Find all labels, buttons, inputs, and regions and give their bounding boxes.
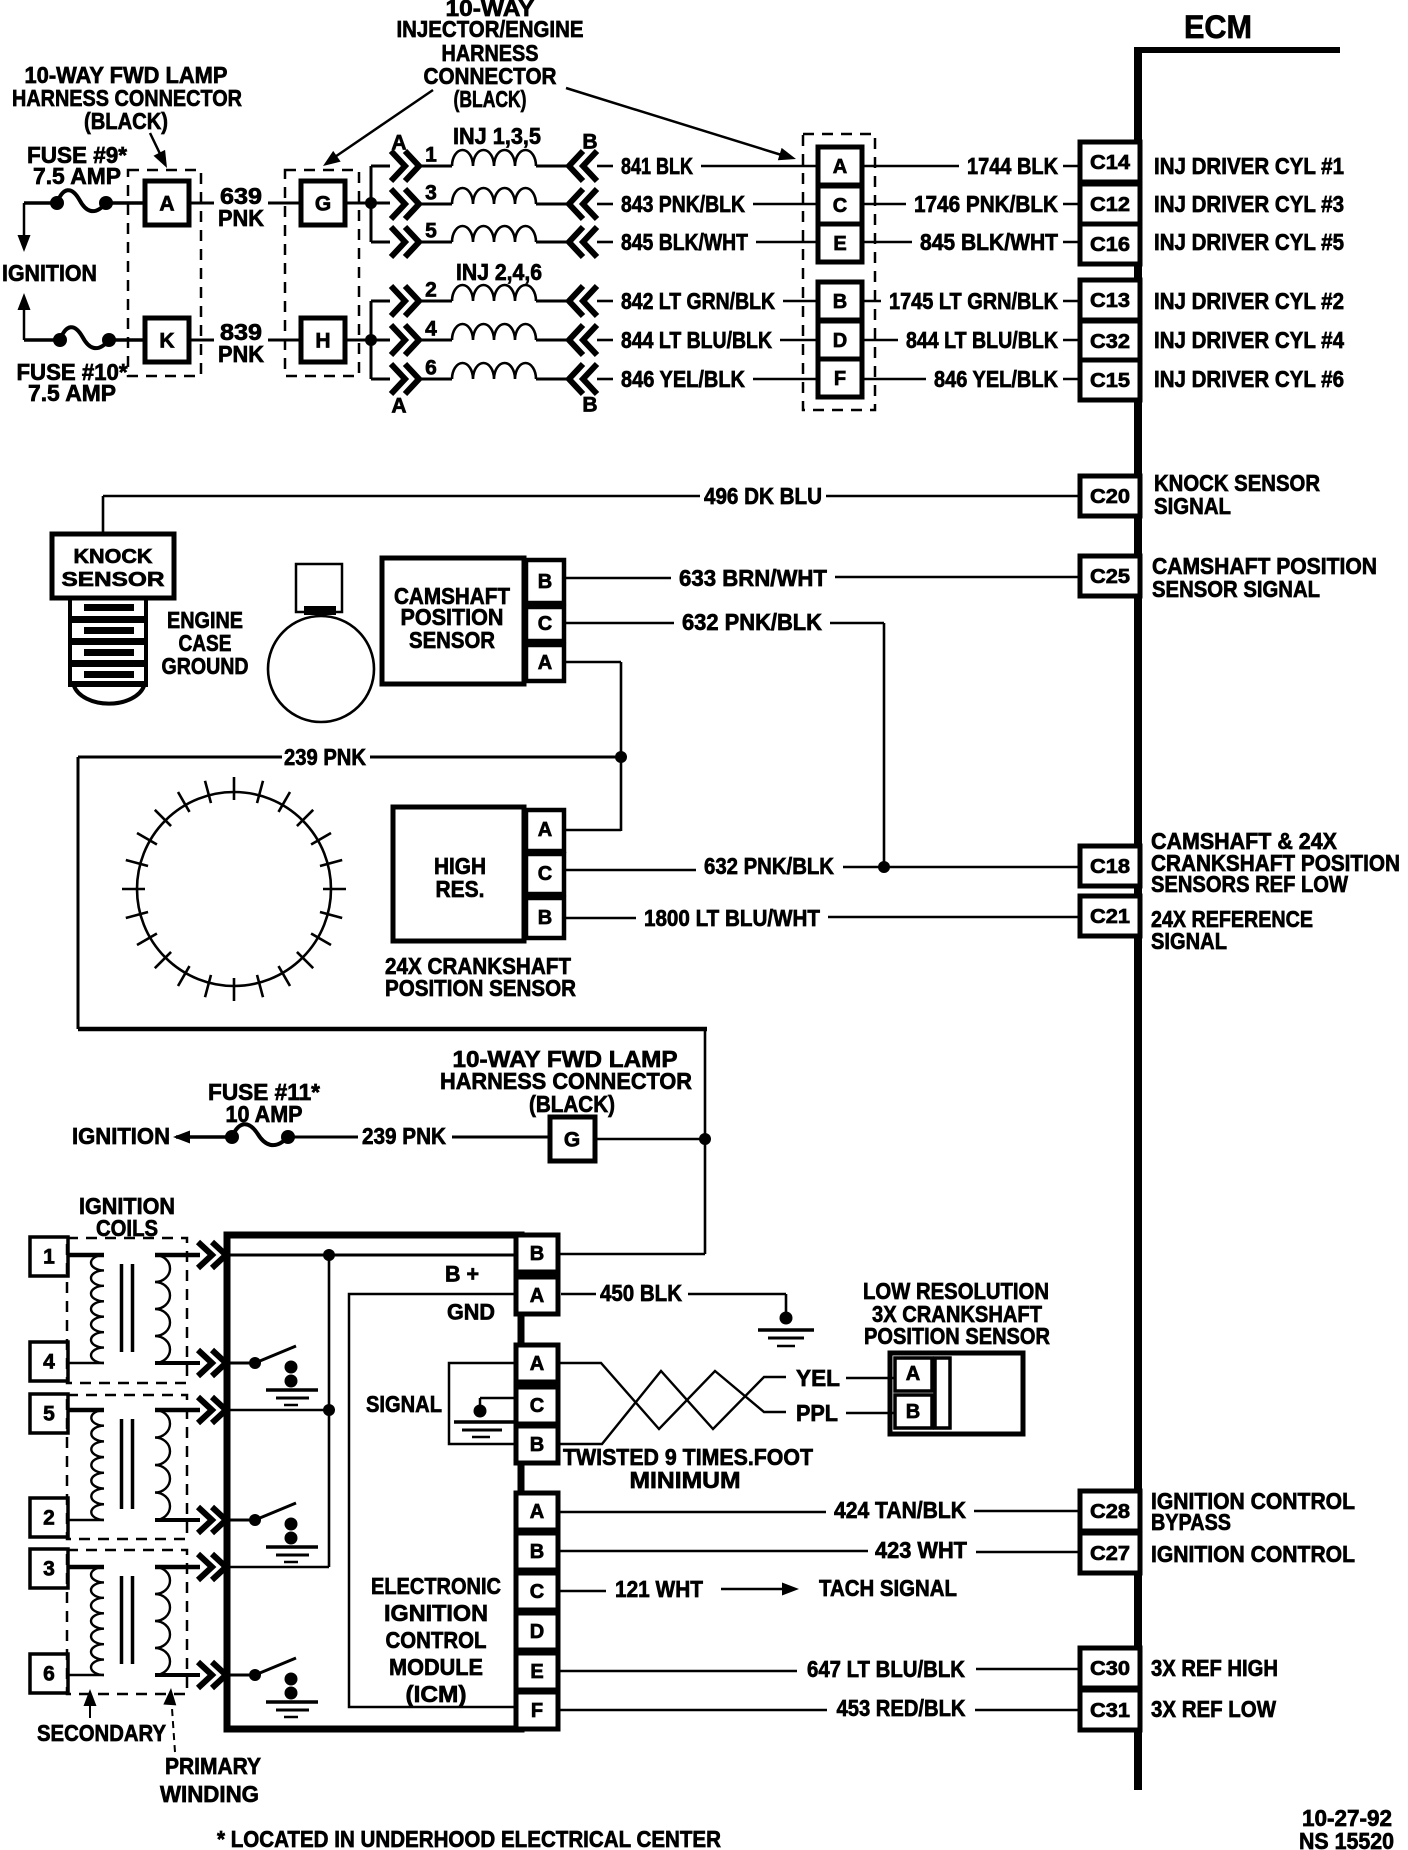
svg-text:C: C bbox=[538, 863, 552, 885]
wire label 845 BLK/WHT bbox=[597, 241, 613, 244]
connector chevron out of injector 3 bbox=[569, 189, 597, 219]
connector chevron into injector 1 bbox=[391, 151, 419, 181]
wire 453 RED/BLK bbox=[558, 1709, 827, 1712]
bus vertical injectors 1-3-5 bbox=[370, 166, 373, 242]
svg-text:841 BLK: 841 BLK bbox=[621, 153, 693, 179]
svg-text:INJECTOR/ENGINE: INJECTOR/ENGINE bbox=[397, 16, 584, 42]
svg-text:MODULE: MODULE bbox=[389, 1654, 483, 1680]
fuse F11 10A bbox=[225, 1130, 239, 1144]
wire coil3 top to B+ bbox=[225, 1566, 329, 1569]
svg-text:C25: C25 bbox=[1090, 566, 1130, 588]
svg-text:D: D bbox=[530, 1621, 544, 1643]
svg-text:IGNITION CONTROL: IGNITION CONTROL bbox=[1151, 1541, 1355, 1567]
wire ICM B pin to junction bbox=[558, 1253, 705, 1256]
wire 639 PNK to G bbox=[268, 202, 301, 205]
svg-text:3X REF LOW: 3X REF LOW bbox=[1151, 1696, 1276, 1722]
ICM pin B y1426 bbox=[516, 1426, 558, 1463]
engine case ground symbol bbox=[296, 564, 342, 612]
coil terminal 5 bbox=[30, 1394, 68, 1433]
connector chevron into ICM row 1675 bbox=[198, 1662, 226, 1688]
svg-text:NS 15520: NS 15520 bbox=[1299, 1828, 1394, 1850]
injector coil 2 bbox=[419, 300, 452, 303]
dashed outline ignition coil T3 bbox=[67, 1550, 187, 1694]
connector pin G (inj harness) bbox=[301, 181, 345, 225]
svg-text:845 BLK/WHT: 845 BLK/WHT bbox=[920, 229, 1058, 255]
ignition coil transformer T2 bbox=[68, 1408, 104, 1413]
svg-text:450 BLK: 450 BLK bbox=[600, 1280, 682, 1306]
svg-text:WINDING: WINDING bbox=[160, 1781, 259, 1807]
svg-text:(BLACK): (BLACK) bbox=[529, 1091, 615, 1117]
svg-text:ELECTRONIC: ELECTRONIC bbox=[371, 1573, 501, 1599]
ECM connector C30 bbox=[1080, 1648, 1140, 1688]
svg-text:INJ DRIVER CYL #5: INJ DRIVER CYL #5 bbox=[1154, 229, 1344, 255]
svg-text:PNK: PNK bbox=[218, 341, 264, 367]
svg-text:1800 LT BLU/WHT: 1800 LT BLU/WHT bbox=[644, 905, 820, 931]
svg-text:B: B bbox=[582, 394, 597, 417]
connector pin E (inj/engine harness) bbox=[818, 224, 862, 262]
connector pin F (inj/engine harness) bbox=[818, 359, 862, 397]
leader arrow to connector A/K bbox=[150, 133, 163, 160]
svg-text:INJ DRIVER CYL #4: INJ DRIVER CYL #4 bbox=[1154, 327, 1344, 353]
fuse F9 7.5A bbox=[50, 196, 64, 210]
wire up from IGNITION feed bbox=[18, 293, 31, 310]
svg-text:B: B bbox=[833, 291, 847, 313]
wire junction down to ICM B bbox=[704, 1139, 707, 1254]
svg-text:846 YEL/BLK: 846 YEL/BLK bbox=[621, 366, 745, 392]
svg-text:INJ DRIVER CYL #3: INJ DRIVER CYL #3 bbox=[1154, 191, 1344, 217]
ICM inner module box bbox=[349, 1294, 519, 1707]
wire fuse10 to pin K bbox=[109, 338, 145, 342]
ECM connector C13 bbox=[1080, 280, 1140, 320]
wire G to B+ junction bbox=[595, 1138, 705, 1141]
svg-text:GROUND: GROUND bbox=[162, 653, 249, 679]
camshaft sensor pin A bbox=[526, 645, 564, 681]
svg-text:1744 BLK: 1744 BLK bbox=[967, 153, 1058, 179]
dashed outline ignition coil T1 bbox=[67, 1238, 187, 1383]
svg-text:KNOCK: KNOCK bbox=[74, 546, 154, 568]
svg-text:F: F bbox=[531, 1700, 543, 1722]
svg-text:PPL: PPL bbox=[796, 1400, 838, 1426]
ECM connector C27 bbox=[1080, 1533, 1140, 1573]
svg-text:A: A bbox=[530, 1285, 544, 1307]
wire 647 LT BLU/BLK bbox=[558, 1670, 797, 1673]
connector chevron into injector 6 bbox=[391, 364, 419, 394]
wire 496 DK BLU right bbox=[826, 495, 1080, 498]
svg-text:1: 1 bbox=[43, 1246, 55, 1269]
svg-text:C14: C14 bbox=[1090, 152, 1131, 174]
svg-text:3X REF HIGH: 3X REF HIGH bbox=[1151, 1655, 1278, 1681]
connector chevron into ICM row 1255 bbox=[198, 1242, 226, 1268]
svg-text:SENSOR: SENSOR bbox=[62, 569, 166, 591]
svg-text:2: 2 bbox=[43, 1507, 55, 1530]
camshaft sensor pin B bbox=[526, 560, 564, 603]
svg-text:7.5 AMP: 7.5 AMP bbox=[33, 163, 121, 189]
wire 844 LT BLU/BLK to ECM bbox=[862, 339, 898, 342]
wire 239 PNK to bus bbox=[78, 756, 282, 759]
ICM pin B y1533 bbox=[516, 1533, 558, 1570]
leader arrow to connector A-F bbox=[566, 88, 788, 157]
wire label 844 LT BLU/BLK bbox=[597, 339, 613, 342]
knock sensor KS1 label box bbox=[52, 534, 174, 598]
svg-text:B: B bbox=[530, 1434, 544, 1456]
svg-text:632 PNK/BLK: 632 PNK/BLK bbox=[682, 609, 822, 635]
svg-text:BYPASS: BYPASS bbox=[1151, 1509, 1231, 1535]
wire 450 BLK bbox=[561, 1293, 596, 1296]
svg-text:5: 5 bbox=[425, 220, 437, 243]
bus vertical injectors 2-4-6 bbox=[370, 301, 373, 379]
wire 845 BLK/WHT to ECM bbox=[862, 241, 912, 244]
svg-text:B: B bbox=[538, 571, 552, 593]
ICM pin A y1493 bbox=[516, 1493, 558, 1530]
svg-text:A: A bbox=[538, 652, 552, 674]
svg-text:C15: C15 bbox=[1090, 370, 1130, 392]
switch contact coil 5-2 bbox=[225, 1519, 257, 1522]
wire YEL to sensor A bbox=[846, 1377, 894, 1380]
svg-text:A: A bbox=[391, 395, 406, 418]
svg-text:INJ 2,4,6: INJ 2,4,6 bbox=[456, 259, 542, 285]
wire fuse9 to pin A bbox=[106, 201, 145, 205]
svg-text:SECONDARY: SECONDARY bbox=[37, 1720, 166, 1746]
ICM pin F y1692 bbox=[516, 1692, 558, 1729]
ECM connector C25 bbox=[1080, 556, 1140, 596]
wire 239 PNK bottom run bbox=[78, 1027, 707, 1032]
reluctor wheel 24X bbox=[122, 777, 346, 1001]
svg-text:496 DK BLU: 496 DK BLU bbox=[704, 483, 822, 509]
ECM connector C21 bbox=[1080, 896, 1140, 936]
3X sensor partition bbox=[935, 1358, 950, 1428]
ECM module boundary line bbox=[1134, 47, 1142, 1790]
svg-text:INJ DRIVER CYL #2: INJ DRIVER CYL #2 bbox=[1154, 288, 1344, 314]
svg-text:B: B bbox=[538, 907, 552, 929]
svg-text:C20: C20 bbox=[1090, 486, 1130, 508]
wire K to H bbox=[189, 339, 214, 342]
connector chevron into injector 5 bbox=[391, 227, 419, 257]
svg-text:7.5 AMP: 7.5 AMP bbox=[28, 380, 116, 406]
svg-text:SIGNAL: SIGNAL bbox=[1154, 493, 1231, 519]
wire 1800 LT BLU/WHT bbox=[564, 917, 636, 920]
injector coil 4 bbox=[419, 339, 452, 342]
high res sensor box bbox=[393, 807, 524, 941]
connector chevron into injector 2 bbox=[391, 286, 419, 316]
svg-text:* LOCATED IN UNDERHOOD ELECTRI: * LOCATED IN UNDERHOOD ELECTRICAL CENTER bbox=[217, 1826, 721, 1850]
connector chevron into ICM row 1567 bbox=[198, 1554, 226, 1580]
svg-text:C32: C32 bbox=[1090, 331, 1130, 353]
svg-text:846 YEL/BLK: 846 YEL/BLK bbox=[934, 366, 1058, 392]
wire high res A bbox=[564, 829, 621, 832]
twisted pair wire B-PPL bbox=[558, 1371, 786, 1444]
wire knock sensor to 496 bbox=[102, 496, 105, 534]
ECM connector C16 bbox=[1080, 224, 1140, 264]
svg-text:H: H bbox=[315, 330, 330, 353]
svg-text:POSITION SENSOR: POSITION SENSOR bbox=[385, 975, 576, 1001]
internal ground (signal) bbox=[480, 1397, 517, 1400]
svg-text:MINIMUM: MINIMUM bbox=[630, 1467, 741, 1493]
svg-text:424 TAN/BLK: 424 TAN/BLK bbox=[834, 1497, 966, 1523]
svg-text:647 LT BLU/BLK: 647 LT BLU/BLK bbox=[807, 1656, 965, 1682]
connector chevron into injector 4 bbox=[391, 325, 419, 355]
connector chevron out of injector 2 bbox=[569, 286, 597, 316]
wire fuse11 to 239 PNK bbox=[288, 1136, 358, 1139]
ICM outer box bbox=[227, 1235, 521, 1729]
wire A to G bbox=[189, 202, 214, 205]
svg-text:G: G bbox=[564, 1129, 580, 1152]
leader arrow to connector G/H bbox=[329, 90, 433, 161]
coil terminal 6 bbox=[30, 1654, 68, 1693]
connector pin C (inj/engine harness) bbox=[818, 186, 862, 224]
3X sensor pin A bbox=[895, 1358, 932, 1391]
signal bracket bbox=[449, 1363, 517, 1444]
ICM pin C y1573 bbox=[516, 1573, 558, 1610]
bus B+ vertical bbox=[328, 1255, 331, 1567]
ECM top edge wire bbox=[1140, 47, 1340, 53]
injector coil 6 bbox=[419, 378, 452, 381]
wire camshaft A to ref low bus bbox=[564, 661, 621, 664]
svg-text:10 AMP: 10 AMP bbox=[226, 1101, 303, 1127]
wire 239 PNK down left bbox=[77, 757, 80, 1029]
connector chevron into ICM row 1410 bbox=[198, 1397, 226, 1423]
svg-text:SENSOR SIGNAL: SENSOR SIGNAL bbox=[1152, 576, 1320, 602]
svg-text:RES.: RES. bbox=[436, 876, 485, 902]
injector coil 3 bbox=[419, 203, 452, 206]
wire label 846 YEL/BLK bbox=[597, 378, 613, 381]
connector pin A (fwd lamp) bbox=[145, 181, 189, 225]
twisted pair wire A-YEL bbox=[558, 1363, 786, 1429]
svg-text:PNK: PNK bbox=[218, 205, 264, 231]
svg-text:2: 2 bbox=[425, 279, 437, 302]
dashed connector outline G/H bbox=[285, 170, 359, 376]
svg-text:844 LT BLU/BLK: 844 LT BLU/BLK bbox=[906, 327, 1058, 353]
connector chevron out of injector 4 bbox=[569, 325, 597, 355]
wire down to IGNITION feed bbox=[23, 203, 26, 246]
ICM pin E y1653 bbox=[516, 1653, 558, 1690]
svg-text:3: 3 bbox=[43, 1558, 55, 1581]
high res pin A bbox=[526, 810, 564, 851]
ECM connector C31 bbox=[1080, 1690, 1140, 1730]
wire coil1 to B+ pin bbox=[225, 1254, 516, 1257]
svg-text:4: 4 bbox=[43, 1351, 55, 1374]
coil terminal 1 bbox=[30, 1237, 68, 1276]
wire ignition to fuse9 bbox=[24, 201, 57, 205]
svg-text:B: B bbox=[530, 1243, 544, 1265]
connector chevron into ICM row 1363 bbox=[198, 1350, 226, 1376]
svg-text:C27: C27 bbox=[1090, 1543, 1130, 1565]
ECM connector C12 bbox=[1080, 184, 1140, 224]
svg-text:845 BLK/WHT: 845 BLK/WHT bbox=[621, 229, 748, 255]
svg-text:844 LT BLU/BLK: 844 LT BLU/BLK bbox=[621, 327, 772, 353]
svg-text:A: A bbox=[159, 193, 174, 216]
coil terminal 2 bbox=[30, 1498, 68, 1537]
wire 632 PNK/BLK (camshaft C) bbox=[564, 622, 674, 625]
low resolution 3X sensor box bbox=[890, 1353, 1023, 1434]
svg-text:A: A bbox=[833, 156, 847, 178]
svg-text:GND: GND bbox=[447, 1300, 495, 1325]
ECM connector C28 bbox=[1080, 1491, 1140, 1531]
svg-text:(BLACK): (BLACK) bbox=[454, 86, 527, 112]
svg-text:E: E bbox=[530, 1661, 543, 1683]
connector pin D (inj/engine harness) bbox=[818, 321, 862, 359]
svg-text:C: C bbox=[833, 195, 847, 217]
wire G to injector bank 1 bbox=[345, 202, 390, 205]
svg-text:(ICM): (ICM) bbox=[406, 1681, 467, 1707]
svg-text:TACH SIGNAL: TACH SIGNAL bbox=[819, 1575, 957, 1601]
wire 1744 BLK to ECM bbox=[862, 165, 959, 168]
ECM connector C14 bbox=[1080, 142, 1140, 182]
connector chevron out of injector 1 bbox=[569, 151, 597, 181]
injector coil 1 bbox=[419, 165, 452, 168]
ICM pin D y1613 bbox=[516, 1613, 558, 1650]
svg-text:121 WHT: 121 WHT bbox=[615, 1576, 703, 1602]
svg-text:C: C bbox=[530, 1581, 544, 1603]
high res pin B bbox=[526, 898, 564, 938]
svg-text:C12: C12 bbox=[1090, 194, 1130, 216]
wire 496 DK BLU left bbox=[103, 495, 700, 498]
ECM connector C20 bbox=[1080, 476, 1140, 516]
svg-text:C: C bbox=[530, 1395, 544, 1417]
svg-text:239 PNK: 239 PNK bbox=[362, 1123, 446, 1149]
svg-text:SENSORS REF LOW: SENSORS REF LOW bbox=[1151, 871, 1348, 897]
svg-text:IGNITION: IGNITION bbox=[384, 1600, 488, 1626]
svg-text:C: C bbox=[538, 613, 552, 635]
connector pin A (inj/engine harness) bbox=[818, 147, 862, 185]
ECM connector C32 bbox=[1080, 321, 1140, 361]
svg-text:INJ DRIVER CYL #6: INJ DRIVER CYL #6 bbox=[1154, 366, 1344, 392]
svg-text:1745 LT GRN/BLK: 1745 LT GRN/BLK bbox=[889, 288, 1058, 314]
knock sensor threaded body bbox=[68, 598, 72, 684]
wire 633 BRN/WHT bbox=[564, 577, 671, 580]
svg-text:A: A bbox=[530, 1501, 544, 1523]
svg-text:C30: C30 bbox=[1090, 1658, 1130, 1680]
camshaft sensor pin C bbox=[526, 607, 564, 641]
connector pin H (inj harness) bbox=[301, 318, 345, 362]
svg-text:INJ DRIVER CYL #1: INJ DRIVER CYL #1 bbox=[1154, 153, 1344, 179]
switch contact coil 1-4 bbox=[225, 1362, 257, 1365]
svg-text:INJ 1,3,5: INJ 1,3,5 bbox=[453, 123, 541, 149]
wire H to injector bank 2 bbox=[345, 339, 390, 342]
svg-text:E: E bbox=[833, 233, 846, 255]
coil terminal 3 bbox=[30, 1549, 68, 1588]
ECM connector C18 bbox=[1080, 846, 1140, 886]
wire label 841 BLK bbox=[597, 165, 613, 168]
svg-text:C31: C31 bbox=[1090, 1700, 1130, 1722]
svg-text:C28: C28 bbox=[1090, 1501, 1130, 1523]
svg-text:YEL: YEL bbox=[796, 1365, 840, 1391]
svg-text:C13: C13 bbox=[1090, 290, 1130, 312]
svg-text:CONTROL: CONTROL bbox=[386, 1627, 487, 1653]
svg-text:PRIMARY: PRIMARY bbox=[165, 1753, 261, 1779]
svg-text:(BLACK): (BLACK) bbox=[84, 108, 168, 134]
svg-text:SENSOR: SENSOR bbox=[409, 627, 495, 653]
svg-text:1746 PNK/BLK: 1746 PNK/BLK bbox=[914, 191, 1058, 217]
ground (450 BLK) bbox=[780, 1312, 793, 1325]
svg-text:K: K bbox=[159, 330, 174, 353]
svg-text:SIGNAL: SIGNAL bbox=[1151, 928, 1227, 954]
ICM pin B y1235 bbox=[516, 1235, 558, 1272]
wire ignition to fuse10 bbox=[24, 338, 60, 342]
svg-text:C21: C21 bbox=[1090, 906, 1130, 928]
svg-text:A: A bbox=[530, 1353, 544, 1375]
connector pin B (inj/engine harness) bbox=[818, 282, 862, 320]
svg-text:423 WHT: 423 WHT bbox=[875, 1537, 967, 1563]
injector coil 5 bbox=[419, 241, 452, 244]
3X sensor pin B bbox=[895, 1395, 932, 1428]
wire PPL to sensor B bbox=[846, 1412, 894, 1415]
wire 424 TAN/BLK bbox=[558, 1511, 826, 1514]
high res pin C bbox=[526, 854, 564, 894]
wire 1745 LT GRN/BLK to ECM bbox=[862, 300, 881, 303]
svg-text:F: F bbox=[834, 368, 846, 390]
ICM pin A y1277 bbox=[516, 1277, 558, 1314]
connector chevron out of injector 5 bbox=[569, 227, 597, 257]
svg-text:4: 4 bbox=[425, 318, 437, 341]
ignition coil transformer T3 bbox=[68, 1565, 104, 1570]
svg-text:IGNITION: IGNITION bbox=[72, 1123, 170, 1149]
svg-text:SIGNAL: SIGNAL bbox=[366, 1391, 442, 1417]
svg-text:ECM: ECM bbox=[1184, 9, 1252, 45]
fuse F10 7.5A bbox=[53, 333, 67, 347]
svg-text:1: 1 bbox=[425, 144, 437, 167]
svg-text:C16: C16 bbox=[1090, 234, 1130, 256]
wire coil2 top to B+ bbox=[225, 1409, 329, 1412]
ICM pin A y1345 bbox=[516, 1345, 558, 1382]
svg-text:6: 6 bbox=[425, 357, 437, 380]
switch contact coil 3-6 bbox=[225, 1674, 257, 1677]
svg-text:3: 3 bbox=[425, 182, 437, 205]
connector chevron into injector 3 bbox=[391, 189, 419, 219]
svg-text:C18: C18 bbox=[1090, 856, 1130, 878]
wire 846 YEL/BLK to ECM bbox=[862, 378, 926, 381]
wire 839 PNK to H bbox=[268, 339, 301, 342]
svg-text:A: A bbox=[538, 819, 552, 841]
coil terminal 4 bbox=[30, 1342, 68, 1381]
svg-text:239 PNK: 239 PNK bbox=[284, 744, 366, 770]
ignition coil transformer T1 bbox=[68, 1253, 104, 1258]
arrow to ignition bbox=[173, 1131, 190, 1144]
svg-text:B: B bbox=[906, 1401, 920, 1423]
svg-text:842 LT GRN/BLK: 842 LT GRN/BLK bbox=[621, 288, 775, 314]
svg-text:B: B bbox=[530, 1541, 544, 1563]
connector pin G (fwd lamp lower) bbox=[550, 1117, 595, 1161]
svg-text:453 RED/BLK: 453 RED/BLK bbox=[837, 1695, 966, 1721]
dashed connector outline A-F (inj/engine harness) bbox=[803, 134, 875, 410]
ICM pin C y1387 bbox=[516, 1387, 558, 1424]
connector chevron out of injector 6 bbox=[569, 364, 597, 394]
svg-text:A: A bbox=[906, 1363, 920, 1385]
svg-text:D: D bbox=[833, 330, 847, 352]
svg-text:633 BRN/WHT: 633 BRN/WHT bbox=[679, 565, 827, 591]
wire 423 WHT bbox=[558, 1550, 868, 1553]
wire down to G junction bbox=[704, 1029, 707, 1140]
wire 121 WHT tach bbox=[558, 1590, 606, 1593]
svg-text:843 PNK/BLK: 843 PNK/BLK bbox=[621, 191, 745, 217]
connector pin K (fwd lamp) bbox=[145, 318, 189, 362]
wire 1746 PNK/BLK to ECM bbox=[862, 203, 906, 206]
ECM connector C15 bbox=[1080, 360, 1140, 400]
dashed outline ignition coil T2 bbox=[67, 1395, 187, 1539]
camshaft position sensor box bbox=[382, 558, 524, 684]
svg-text:IGNITION: IGNITION bbox=[2, 260, 97, 286]
svg-text:632 PNK/BLK: 632 PNK/BLK bbox=[704, 853, 834, 879]
wire 632 PNK/BLK (high res C) bbox=[564, 869, 696, 872]
svg-text:6: 6 bbox=[43, 1663, 55, 1686]
dashed connector outline A/K bbox=[128, 170, 201, 376]
svg-text:B +: B + bbox=[445, 1262, 479, 1287]
svg-text:G: G bbox=[315, 193, 331, 216]
wire label 842 LT GRN/BLK bbox=[597, 300, 613, 303]
svg-text:POSITION SENSOR: POSITION SENSOR bbox=[864, 1323, 1050, 1349]
wire label 843 PNK/BLK bbox=[597, 203, 613, 206]
svg-text:5: 5 bbox=[43, 1403, 55, 1426]
connector chevron into ICM row 1520 bbox=[198, 1507, 226, 1533]
